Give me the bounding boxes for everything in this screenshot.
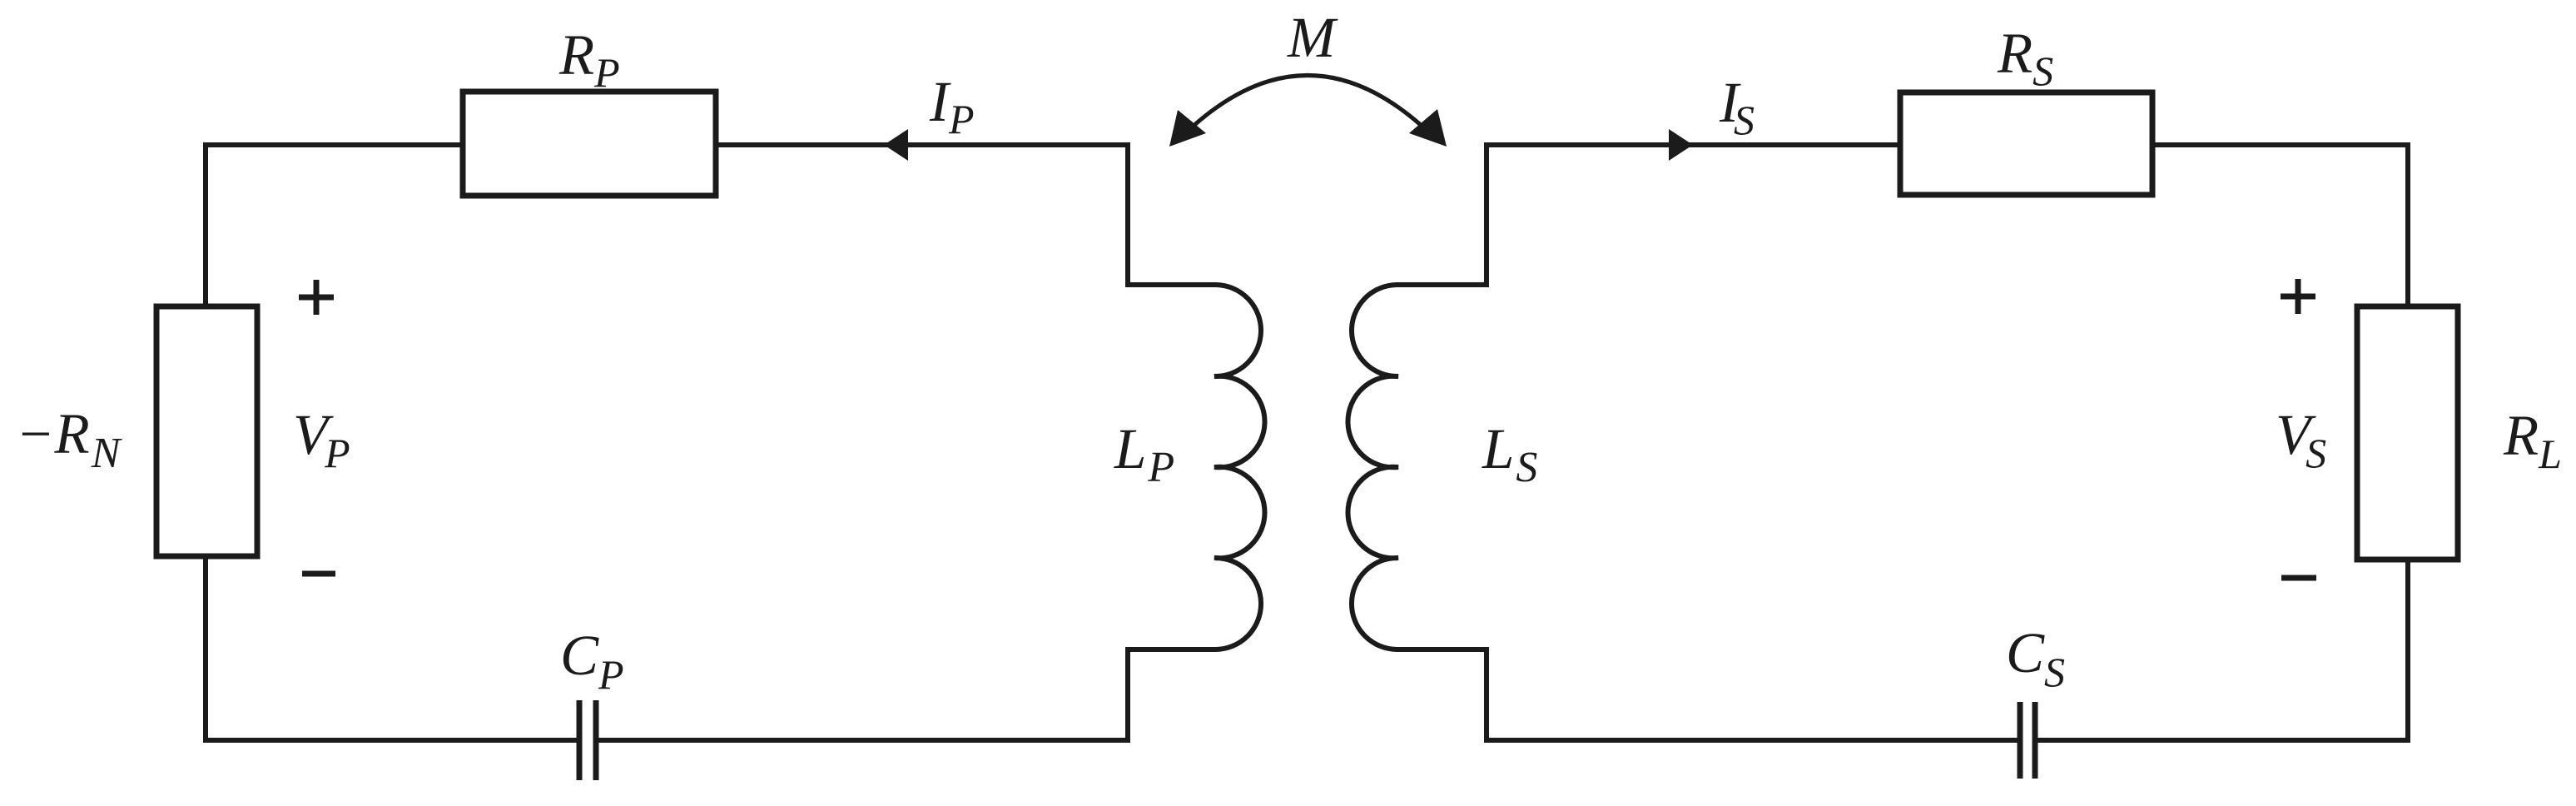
svg-text:M: M bbox=[1287, 6, 1338, 69]
